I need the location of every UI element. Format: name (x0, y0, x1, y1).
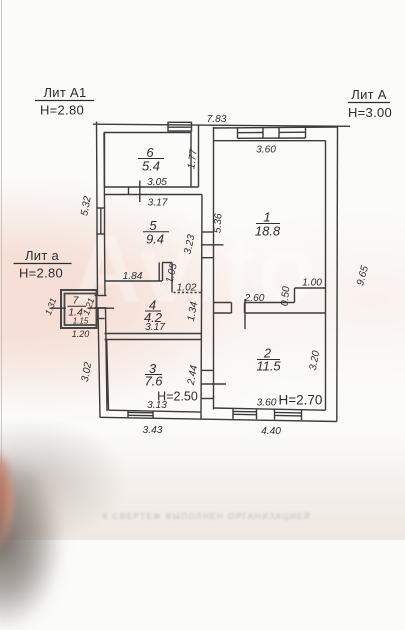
dim line 2.44 extension (201, 383, 226, 385)
svg-text:2.44: 2.44 (186, 364, 201, 387)
svg-text:2.60: 2.60 (244, 293, 265, 304)
dim tick y398.5 (201, 398, 214, 400)
svg-text:Н=3.00: Н=3.00 (348, 105, 392, 120)
window W2 in room 6 top wall (168, 122, 192, 131)
dim line through room 7 left (50, 307, 67, 309)
svg-text:3.43: 3.43 (143, 425, 163, 436)
svg-text:3.05: 3.05 (147, 177, 167, 188)
svg-text:3.20: 3.20 (308, 350, 322, 372)
room 7 inner rect (65, 294, 97, 326)
dim tick 2.60 (244, 299, 246, 329)
wall: left outer wall of building (96, 122, 99, 209)
finger (0, 448, 16, 552)
svg-text:1: 1 (263, 210, 270, 225)
dim line through room 7 right (88, 307, 115, 309)
dimension line 7.83 (top) (93, 124, 350, 126)
dim tick at y244.8 (202, 244, 224, 246)
svg-text:11.5: 11.5 (256, 359, 281, 374)
dim tick at y232 (202, 231, 214, 233)
svg-text:1.31: 1.31 (43, 297, 58, 317)
svg-text:Н=2.70: Н=2.70 (279, 393, 323, 408)
svg-text:1.34: 1.34 (186, 301, 200, 323)
wall: left inner line (103, 133, 106, 209)
svg-text:4.40: 4.40 (261, 426, 281, 437)
finger shadow bottom-left (0, 455, 63, 630)
svg-text:4.2: 4.2 (144, 310, 163, 325)
dim tick y370.4 (201, 369, 214, 371)
dashed opening 1.02 (174, 292, 202, 294)
svg-text:18.8: 18.8 (255, 224, 281, 239)
window W5 in room 2 bottom wall (274, 409, 276, 419)
room 1 bottom wall left segment (214, 302, 232, 304)
svg-text:3.60: 3.60 (256, 145, 276, 156)
svg-text:3.13: 3.13 (147, 400, 167, 411)
door jambs rooms 1-2 (231, 303, 233, 314)
room 5 bottom wall left part (1.84) (105, 280, 163, 282)
step vertical 0.50 (294, 288, 296, 303)
svg-text:3.02: 3.02 (80, 361, 94, 383)
building outer bottom wall (100, 417, 337, 421)
room 3 inner bottom (109, 410, 202, 412)
room 6 block outer right wall (198, 125, 200, 188)
stove notch tick (158, 263, 160, 282)
dim tick 3.05/3.17 (139, 181, 141, 203)
room 1 bottom wall right segment 1.00 (295, 287, 326, 289)
dim tick at y257.7 (202, 257, 214, 259)
page left edge (1, 0, 2, 475)
svg-text:5.4: 5.4 (142, 159, 160, 174)
svg-text:Лит а: Лит а (25, 248, 60, 263)
door W3 in room 3 bottom wall (127, 411, 129, 418)
window W1 in left wall (97, 208, 105, 234)
svg-text:1.05: 1.05 (164, 262, 180, 284)
room 7 door jamb ticks (95, 295, 107, 297)
svg-text:7.6: 7.6 (144, 374, 163, 389)
ghost text bottom (72, 512, 342, 521)
room 2 inner bottom (214, 408, 326, 410)
svg-text:Лит А1: Лит А1 (43, 85, 86, 100)
underline Лит А1 (35, 100, 94, 102)
windows sill line (238, 137, 306, 139)
svg-text:0.50: 0.50 (280, 286, 293, 307)
tick y318.5 (99, 318, 105, 320)
svg-text:1.84: 1.84 (123, 271, 143, 282)
svg-text:9.4: 9.4 (146, 232, 164, 247)
room 1 inner top (214, 140, 326, 142)
svg-text:5.36: 5.36 (212, 213, 224, 234)
svg-text:7.83: 7.83 (207, 114, 227, 125)
svg-text:1.20: 1.20 (72, 329, 90, 339)
svg-text:7: 7 (73, 295, 80, 307)
wall between rooms 4 and 3 lower (105, 339, 202, 341)
svg-text:1.00: 1.00 (302, 278, 322, 289)
middle wall line x201.5 (201, 195, 202, 420)
wall between rooms 6 and 5, upper line (105, 186, 199, 188)
inner left wall of rooms 1-2 (213, 127, 215, 410)
svg-text:3.60: 3.60 (257, 398, 277, 409)
svg-text:1.02: 1.02 (177, 283, 197, 294)
stove notch right vertical (1.05) (171, 263, 173, 293)
svg-text:Лит А: Лит А (351, 87, 387, 102)
svg-text:3.23: 3.23 (183, 233, 198, 255)
svg-text:5.32: 5.32 (79, 195, 93, 217)
room 6 inner rect (105, 133, 192, 187)
room 3 inner rect (107, 340, 109, 411)
window W7 top wall (278, 128, 280, 139)
stove notch vertical (162, 263, 164, 282)
Avito watermark (72, 215, 405, 325)
wall between rooms 6 and 5, lower line (105, 194, 203, 196)
right outer wall (336, 126, 339, 421)
jamb connector (128, 187, 130, 195)
stove notch top (162, 262, 172, 264)
wall between rooms 4 and 3 upper (105, 333, 202, 335)
right inner wall (325, 141, 327, 411)
window W4 in room 2 bottom wall (232, 408, 234, 419)
svg-text:9.65: 9.65 (355, 265, 371, 287)
window W6 top wall (237, 128, 239, 139)
svg-text:Н=2.80: Н=2.80 (19, 266, 63, 281)
room 2 top wall (214, 312, 232, 314)
room 1 outer top wall (213, 127, 338, 128)
finger lower part (0, 500, 14, 570)
svg-text:1.4: 1.4 (68, 307, 83, 319)
room 7 outer rect (61, 290, 97, 328)
underline Лит А (348, 102, 390, 104)
svg-text:1.77: 1.77 (186, 148, 199, 169)
svg-text:Н=2.80: Н=2.80 (40, 103, 84, 118)
svg-text:3.17: 3.17 (148, 198, 168, 209)
underline Лит а (14, 263, 72, 265)
